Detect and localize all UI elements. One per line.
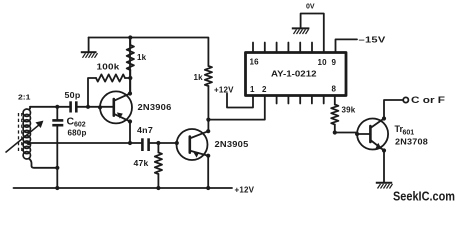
svg-text:C or F: C or F bbox=[411, 95, 446, 105]
svg-text:AY-1-0212: AY-1-0212 bbox=[271, 69, 317, 79]
svg-text:16: 16 bbox=[250, 58, 260, 67]
svg-text:2N3708: 2N3708 bbox=[395, 138, 428, 147]
svg-text:601: 601 bbox=[403, 130, 415, 137]
svg-text:2:1: 2:1 bbox=[18, 95, 31, 102]
svg-text:9: 9 bbox=[332, 58, 337, 67]
svg-text:100k: 100k bbox=[97, 63, 120, 72]
svg-text:–15V: –15V bbox=[359, 36, 387, 45]
svg-text:+12V: +12V bbox=[235, 186, 255, 195]
svg-text:0V: 0V bbox=[306, 4, 315, 11]
svg-text:1: 1 bbox=[250, 85, 255, 94]
svg-text:680p: 680p bbox=[68, 129, 87, 138]
svg-text:2N3905: 2N3905 bbox=[215, 140, 249, 149]
svg-text:2: 2 bbox=[262, 85, 267, 94]
svg-text:1k: 1k bbox=[137, 53, 147, 62]
svg-text:50p: 50p bbox=[65, 91, 81, 100]
svg-text:602: 602 bbox=[74, 122, 86, 129]
svg-text:39k: 39k bbox=[342, 106, 356, 115]
svg-text:4n7: 4n7 bbox=[137, 126, 153, 135]
svg-text:SeekIC.com: SeekIC.com bbox=[393, 189, 455, 204]
svg-text:2N3906: 2N3906 bbox=[138, 103, 172, 112]
svg-text:8: 8 bbox=[332, 85, 337, 94]
svg-text:+12V: +12V bbox=[214, 86, 234, 95]
svg-text:1k: 1k bbox=[194, 73, 204, 82]
svg-text:47k: 47k bbox=[134, 159, 149, 168]
svg-text:10: 10 bbox=[318, 58, 328, 67]
